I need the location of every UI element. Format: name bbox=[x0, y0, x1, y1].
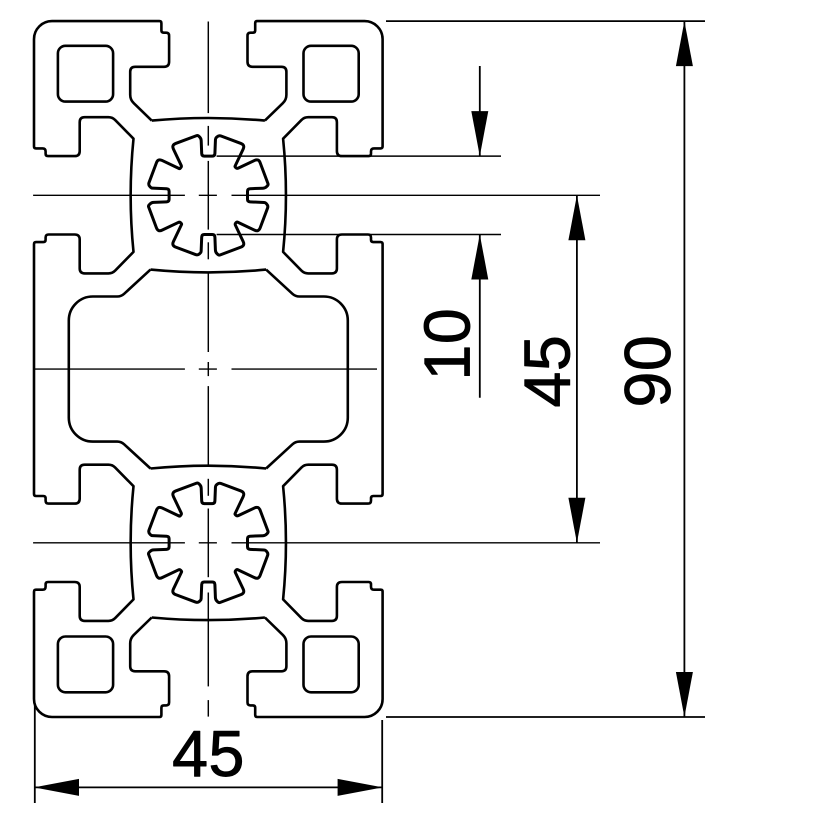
corner square hole top-left bbox=[58, 46, 113, 102]
dimension 10: lower leader bbox=[479, 235, 481, 398]
corner square hole top-right bbox=[304, 46, 359, 102]
profile outer contour mirror bottom-left bbox=[34, 369, 169, 717]
svg-text:90: 90 bbox=[612, 335, 684, 408]
cavity bottom bump wall bbox=[151, 466, 267, 469]
bore 1 horizontal centerline bbox=[33, 194, 185, 196]
dimension 45 bottom: extension line left bbox=[34, 705, 36, 803]
center cavity mirror bottom-right bbox=[266, 369, 348, 468]
corner square hole bottom-right bbox=[304, 637, 359, 693]
dimension 10: upper leader bbox=[479, 66, 481, 156]
dimension 10: arrowhead down bbox=[471, 111, 488, 156]
top slot floor (boss outer wall) bbox=[152, 118, 265, 121]
dimension 90: arrowhead up bbox=[676, 21, 693, 66]
dimension 90: extension line top bbox=[386, 20, 705, 22]
svg-text:45: 45 bbox=[511, 335, 583, 408]
dimension 90: dimension line bbox=[683, 21, 685, 717]
corner square hole bottom-left bbox=[58, 637, 113, 693]
dimension 45 vertical: arrowhead down bbox=[568, 498, 585, 543]
dimension 45 bottom: arrowhead left bbox=[34, 779, 79, 796]
dimension 10: extension line lower bbox=[217, 234, 501, 236]
dimension 10: arrowhead up bbox=[471, 235, 488, 280]
cavity horizontal centerline bbox=[33, 368, 185, 370]
dimension 45 vertical: arrowhead up bbox=[568, 195, 585, 240]
dimension 45 bottom: dimension line bbox=[34, 786, 383, 788]
profile outer contour mirror top-right bbox=[248, 21, 383, 369]
dimension 90: extension line bottom bbox=[386, 716, 705, 718]
bore 2 horizontal centerline bbox=[33, 542, 185, 544]
profile outer contour mirror bottom-right bbox=[248, 369, 383, 717]
profile outer contour with T-slots (top-left quadrant) bbox=[34, 21, 169, 369]
svg-text:45: 45 bbox=[172, 718, 245, 790]
cavity top bump wall bbox=[151, 270, 267, 273]
center cavity mirror top-right bbox=[266, 270, 348, 369]
dimension 90: arrowhead down bbox=[676, 672, 693, 717]
bottom slot floor (boss outer wall) bbox=[152, 618, 265, 621]
dimension 45 vertical: dimension line bbox=[576, 195, 578, 543]
center cavity mirror bottom-left bbox=[69, 369, 151, 468]
core bore star, bore 2 bbox=[148, 483, 268, 603]
core bore star, bore 1 bbox=[148, 135, 268, 255]
center cavity (top-left quarter) bbox=[69, 270, 151, 369]
vertical centerline bbox=[207, 22, 209, 114]
svg-text:10: 10 bbox=[411, 308, 483, 381]
dimension 10: extension line upper bbox=[217, 155, 501, 157]
dimension 45 bottom: extension line right bbox=[381, 720, 383, 803]
dimension 45 bottom: arrowhead right bbox=[338, 779, 383, 796]
